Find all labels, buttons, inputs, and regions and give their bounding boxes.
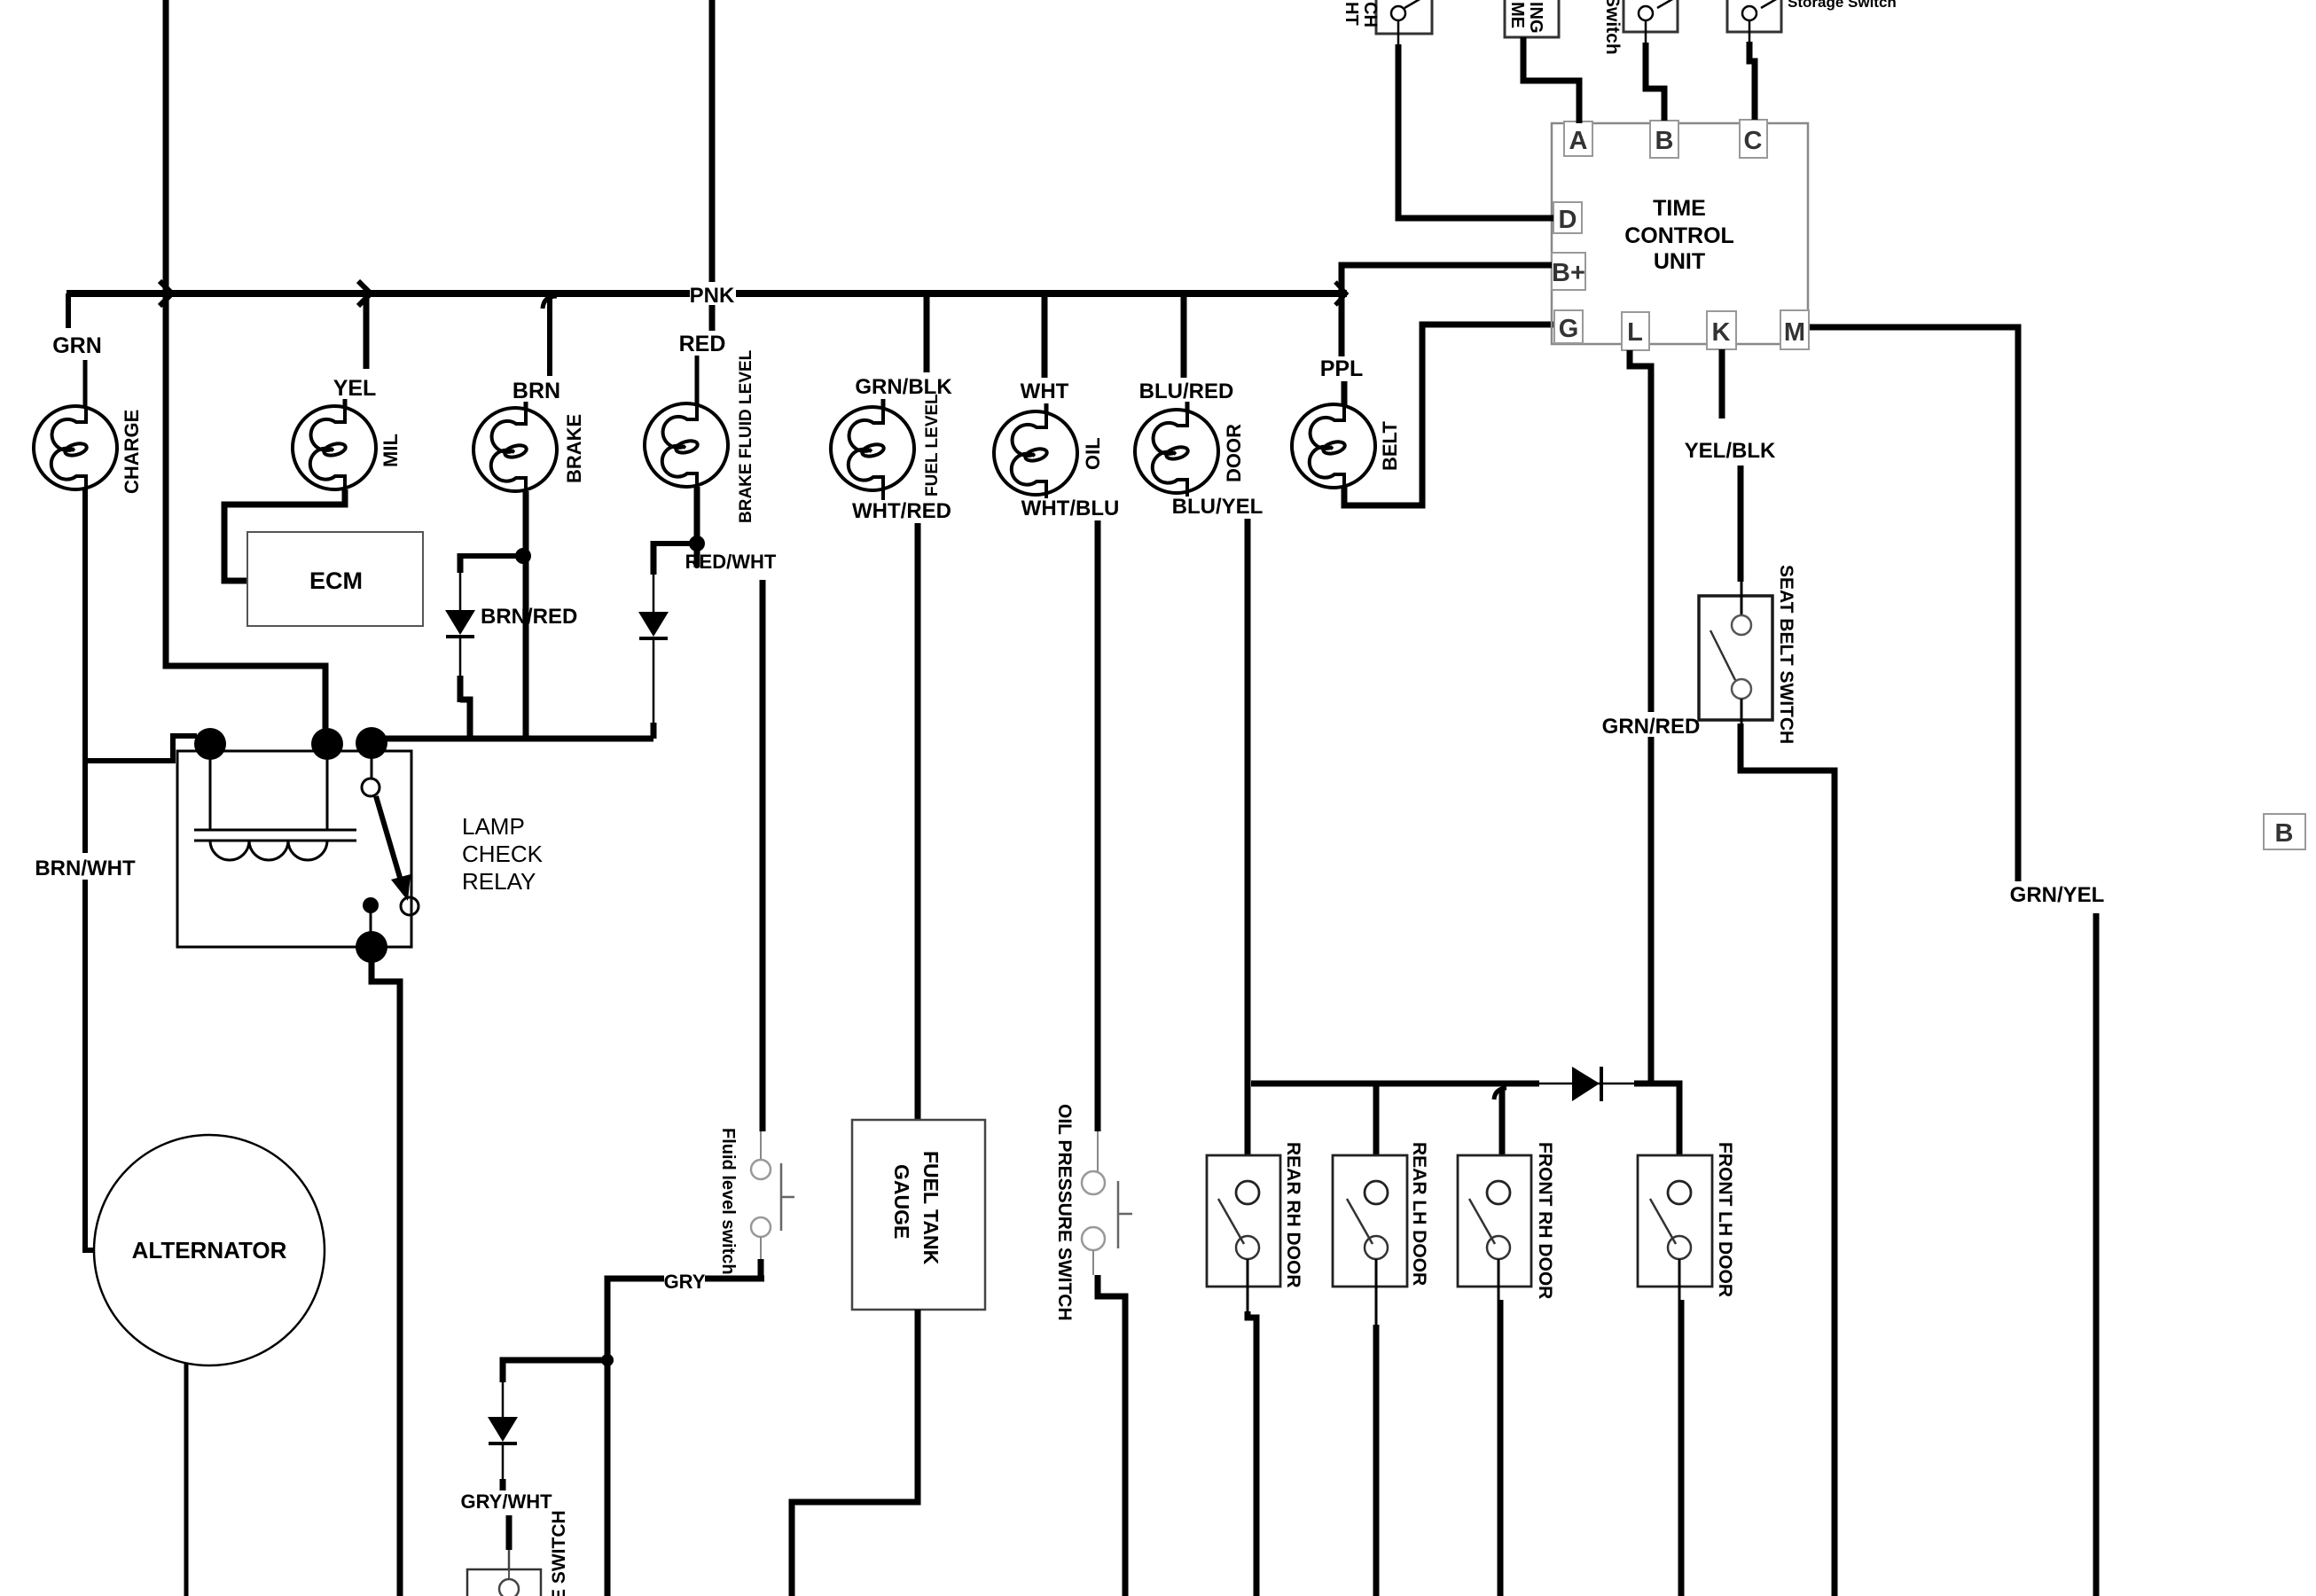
wire: GRY run (607, 1279, 764, 1596)
rear LH door switch (1333, 1155, 1407, 1287)
junction dot relay output (356, 931, 387, 963)
svg-text:BRAKE: BRAKE (563, 414, 585, 483)
pin A (1564, 121, 1592, 156)
svg-text:PNK: PNK (690, 284, 735, 308)
wire: GRN/YEL down to bottom (2093, 913, 2100, 1596)
wire: fuel tank gauge output (792, 1310, 918, 1596)
svg-text:D: D (1559, 206, 1577, 234)
svg-text:MIL: MIL (379, 434, 402, 467)
label GRN/RED (1605, 712, 1697, 737)
junction dot relay coil left (194, 728, 226, 760)
wire: GRN tick above label (66, 293, 71, 328)
svg-text:FUEL LEVEL: FUEL LEVEL (923, 394, 942, 497)
wire: OIL lamp lead (1045, 495, 1048, 498)
wire: BLU/RED drop (1181, 293, 1187, 378)
fuel tank gauge box (852, 1120, 985, 1310)
junction dot GRY branch (601, 1354, 614, 1366)
svg-text:YEL/BLK: YEL/BLK (1685, 439, 1776, 463)
svg-text:K: K (1712, 318, 1731, 347)
svg-text:B+: B+ (1552, 259, 1585, 287)
wire: pin M to GRN/YEL (1810, 327, 2018, 881)
svg-text:BELT: BELT (1379, 421, 1401, 471)
svg-text:BRN/WHT: BRN/WHT (35, 857, 136, 880)
svg-text:B: B (1655, 127, 1674, 155)
svg-text:BRN: BRN (512, 379, 560, 403)
relay output contact dot (363, 897, 379, 913)
wire: rear RH door output (1247, 1259, 1249, 1311)
front LH door switch (1638, 1155, 1712, 1287)
wire: BRN drop (547, 293, 552, 376)
junction hook front RH drop (1494, 1088, 1506, 1099)
wire: BRAKE lamp down to relay bus (523, 491, 529, 739)
oil pressure switch lead (1097, 1131, 1099, 1173)
pin D (1553, 202, 1582, 233)
svg-text:Storage Switch: Storage Switch (1788, 0, 1897, 11)
rear RH door switch (1207, 1155, 1280, 1287)
wire: GRN/BLK lead to FUEL LEVEL lamp (881, 399, 886, 408)
connector B box (2264, 814, 2305, 849)
svg-text:CONTROL: CONTROL (1624, 223, 1734, 248)
diode GRY/WHT cathode lead (502, 1443, 505, 1479)
wire: rear LH door output (1375, 1259, 1378, 1325)
wire: RED/WHT down to fluid level switch (760, 580, 766, 1131)
diode brake fluid (638, 612, 669, 637)
relay switch moving contact (401, 897, 419, 915)
svg-text:BLU/RED: BLU/RED (1139, 379, 1234, 403)
diode GRY/WHT (488, 1417, 518, 1442)
svg-text:ING: ING (1526, 2, 1545, 34)
wire: CHARGE lamp to alternator (BRN/WHT) (85, 489, 95, 1250)
wire: door switch bus (1251, 1081, 1539, 1087)
diode cathode lead down to relay bus (653, 638, 655, 723)
brake switch box (cut at bottom) (467, 1569, 541, 1596)
alternator circle (94, 1135, 325, 1365)
wire: BLU/YEL down to rear RH door switch (1245, 519, 1251, 1155)
indicator lamp CHARGE (34, 406, 117, 489)
wire: switch3 to pin B (1645, 20, 1647, 44)
wire: RED lead to BRAKE FLUID LEVEL lamp (695, 356, 700, 404)
wire: diode to front LH door drop (1634, 1084, 1679, 1155)
svg-text:GRN/RED: GRN/RED (1602, 715, 1701, 739)
pin L (1622, 312, 1649, 350)
wire: WHT/BLU down to oil pressure switch (1095, 520, 1101, 1131)
svg-text:ME: ME (1507, 2, 1527, 28)
relay switch fixed contact (371, 752, 373, 778)
ECM box (247, 532, 423, 626)
diode BRN/RED (445, 610, 475, 635)
wire: front LH door output (1678, 1259, 1681, 1300)
storage switch box (top, to pin C) (1727, 0, 1781, 32)
wire: WHT lead to OIL lamp (1045, 403, 1049, 412)
front RH door switch (1458, 1155, 1531, 1287)
svg-text:REAR LH DOOR: REAR LH DOOR (1409, 1142, 1429, 1286)
indicator lamp FUEL LEVEL (831, 407, 914, 490)
label PNK (690, 282, 736, 305)
svg-text:YEL: YEL (333, 376, 377, 401)
svg-text:BRN/RED: BRN/RED (481, 605, 577, 629)
junction dot RED/WHT branch (689, 536, 705, 552)
svg-text:FRONT LH DOOR: FRONT LH DOOR (1715, 1142, 1735, 1297)
junction chevron at bus end (1335, 282, 1346, 305)
svg-text:GRY: GRY (664, 1271, 706, 1293)
svg-text:Fluid level switch: Fluid level switch (718, 1128, 738, 1275)
wire: GRY/WHT to brake switch (506, 1515, 512, 1550)
svg-text:OIL PRESSURE SWITCH: OIL PRESSURE SWITCH (1054, 1104, 1075, 1321)
wire: PNK bus (67, 290, 1347, 297)
svg-text:CH: CH (1360, 2, 1380, 27)
TIME CONTROL UNIT box (1552, 123, 1808, 344)
fluid level switch lead (760, 1131, 762, 1160)
svg-text:RED/WHT: RED/WHT (685, 551, 777, 573)
svg-text:GRN/YEL: GRN/YEL (2010, 883, 2105, 907)
svg-text:E SWITCH: E SWITCH (549, 1510, 569, 1596)
relay core lines (194, 830, 356, 841)
svg-text:LAMP: LAMP (462, 813, 525, 840)
junction dot BRAKE branch (515, 548, 531, 564)
indicator lamp BRAKE FLUID LEVEL (645, 403, 728, 487)
svg-text:WHT/RED: WHT/RED (852, 499, 951, 523)
svg-text:WHT/BLU: WHT/BLU (1021, 497, 1120, 520)
diode door circuit (1572, 1067, 1600, 1101)
svg-text:G: G (1559, 315, 1579, 343)
diode BRN/RED cathode lead (459, 637, 462, 676)
label GRY (664, 1270, 705, 1291)
wire: rear LH door drop (1373, 1084, 1380, 1155)
wire: GRN/BLK drop (924, 293, 930, 372)
svg-text:HT: HT (1342, 2, 1361, 26)
wire: storage switch to pin C (1749, 20, 1751, 43)
svg-text:BLU/YEL: BLU/YEL (1172, 495, 1264, 519)
svg-text:UNIT: UNIT (1654, 249, 1705, 274)
wire: relay output down (372, 953, 400, 1596)
wire: B+ pin to bus (1342, 265, 1552, 295)
wire: branch to BRN/RED diode (460, 553, 520, 559)
svg-text:DOOR: DOOR (1223, 424, 1245, 482)
svg-text:PPL: PPL (1320, 356, 1364, 381)
wire: chime box to pin A (1523, 37, 1579, 123)
svg-text:FUEL TANK: FUEL TANK (919, 1151, 943, 1265)
wire: oil pressure switch output (1092, 1250, 1094, 1275)
oil pressure switch (1082, 1171, 1105, 1194)
label BRN/WHT (34, 853, 138, 880)
wire: WHT/RED down to fuel tank gauge (915, 523, 921, 1120)
wire: YEL drop (364, 293, 370, 369)
pin C (1740, 120, 1767, 158)
fluid level switch (751, 1160, 771, 1179)
svg-text:FRONT RH DOOR: FRONT RH DOOR (1535, 1142, 1555, 1299)
svg-text:C: C (1744, 127, 1763, 155)
wire: relay top bus (372, 736, 653, 742)
svg-text:RELAY: RELAY (462, 868, 536, 895)
indicator lamp MIL (293, 406, 376, 489)
wire: DOOR lamp lead (1185, 493, 1189, 497)
svg-text:M: M (1784, 318, 1805, 347)
diode GRY/WHT anode lead (502, 1382, 505, 1417)
junction dot relay common (356, 727, 387, 759)
svg-text:OIL: OIL (1082, 437, 1104, 470)
relay switch arm with arrow (376, 796, 401, 880)
indicator lamp BELT (1292, 404, 1375, 488)
pin B+ (1552, 253, 1585, 290)
diode BRN/RED (anode lead) (459, 573, 462, 610)
junction dot relay coil right (311, 728, 343, 760)
indicator lamp BRAKE (473, 408, 557, 491)
wire: YEL lead to MIL lamp (343, 399, 348, 407)
svg-text:ECM: ECM (309, 567, 363, 594)
wire: branch to lamp check relay coil (85, 736, 197, 761)
wire: branch to second diode (653, 541, 693, 546)
wire: pin L down (GRN/RED) (1630, 350, 1651, 1084)
wire: front RH door drop (1499, 1091, 1506, 1155)
svg-text:CHARGE: CHARGE (121, 410, 143, 494)
svg-text:WHT: WHT (1021, 379, 1069, 403)
svg-text:REAR RH DOOR: REAR RH DOOR (1283, 1142, 1303, 1288)
lamp check relay box (177, 751, 411, 947)
pin M (1780, 310, 1809, 349)
wire: GRN lead to CHARGE lamp (83, 360, 88, 407)
svg-text:CHECK: CHECK (462, 841, 544, 867)
wire: YEL/BLK to seat belt switch (1738, 465, 1744, 582)
svg-text:TIME: TIME (1653, 196, 1706, 221)
relay coil bumps (210, 841, 327, 860)
wire: FUEL LEVEL lamp lead (881, 490, 885, 500)
wire: BRN lead to BRAKE lamp (524, 402, 528, 409)
wire: MIL lamp to ECM (224, 489, 345, 581)
svg-text:Switch: Switch (1602, 0, 1623, 55)
switch box 1 (top, to pin D) (1376, 0, 1432, 34)
wire: alternator bottom lead (184, 1363, 189, 1596)
wire: seat belt switch output (GRN/RED) (1741, 724, 1835, 1596)
wire: fluid level switch output (760, 1237, 762, 1259)
junction chevron at main vertical (160, 281, 172, 306)
diode (brake fluid) anode lead (653, 575, 655, 612)
svg-text:BRAKE FLUID LEVEL: BRAKE FLUID LEVEL (737, 349, 755, 523)
wire: front RH door output (1498, 1259, 1500, 1300)
wire: BELT lamp to TCU pin G (1344, 325, 1554, 505)
wire: main ignition feed vertical from top (166, 0, 325, 735)
pin B (1650, 121, 1678, 158)
svg-text:GRY/WHT: GRY/WHT (460, 1490, 552, 1513)
svg-text:ALTERNATOR: ALTERNATOR (132, 1237, 287, 1263)
svg-text:L: L (1627, 318, 1643, 347)
svg-text:GRN: GRN (52, 333, 102, 358)
svg-text:RED: RED (679, 332, 726, 356)
indicator lamp OIL (994, 411, 1077, 495)
switch box 3 (top, to pin B) (1624, 0, 1678, 32)
indicator lamp DOOR (1135, 410, 1218, 493)
pin K (1707, 311, 1736, 349)
seat belt switch box (1699, 596, 1772, 720)
wire: WHT drop (1042, 293, 1048, 378)
wire: RED lamp feed vertical from top (709, 0, 716, 331)
wire: PPL drop from bus end (1339, 293, 1345, 356)
wire: PPL lead to BELT lamp (1342, 381, 1348, 405)
svg-text:GAUGE: GAUGE (890, 1164, 913, 1239)
pin G (1554, 310, 1583, 343)
wire: pin K down (1719, 349, 1725, 419)
junction hook at BRN drop (543, 296, 557, 309)
junction chevron at YEL drop (358, 281, 371, 306)
wire: branch to GRY/WHT diode (503, 1360, 611, 1382)
relay coil leads (209, 752, 212, 830)
wire: BLU/RED lead to DOOR lamp (1185, 402, 1190, 411)
wire: switch1 to pin D (1397, 20, 1400, 46)
wire: BRAKE FLUID LEVEL lamp down (694, 487, 700, 567)
svg-text:B: B (2275, 819, 2294, 848)
svg-text:A: A (1569, 127, 1588, 155)
svg-text:SEAT BELT SWITCH: SEAT BELT SWITCH (1776, 565, 1796, 744)
warning chime box (top, to pin A) (1505, 0, 1559, 37)
